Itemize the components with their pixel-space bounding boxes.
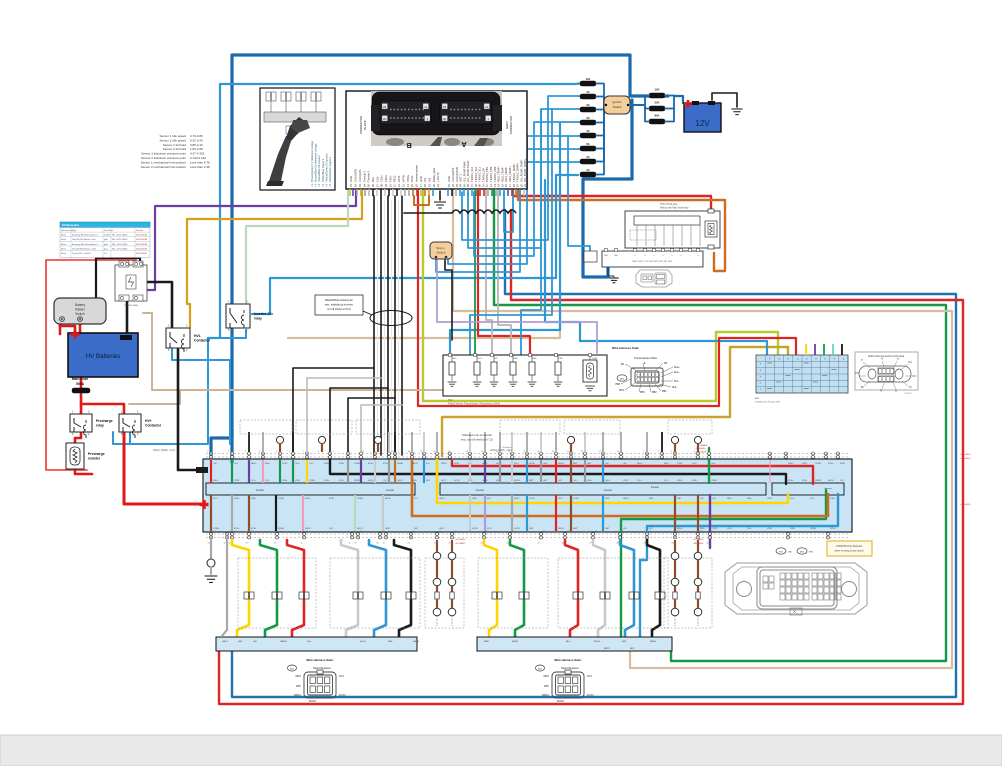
svg-text:CLK: CLK xyxy=(426,463,431,465)
svg-text:03 - CAN (E)TL: 03 - CAN (E)TL xyxy=(358,169,362,187)
svg-text:23: 23 xyxy=(537,451,539,453)
svg-text:CLK: CLK xyxy=(414,498,419,500)
svg-text:21: 21 xyxy=(434,543,436,545)
svg-text:4: 4 xyxy=(259,451,260,453)
svg-text:Park/Neutral Position SW: Park/Neutral Position SW xyxy=(755,401,781,404)
svg-text:REG-: REG- xyxy=(747,498,752,500)
battery HV Batteries pack xyxy=(68,333,138,377)
svg-text:Inverter: Inverter xyxy=(651,486,659,489)
svg-text:GND1: GND1 xyxy=(397,480,403,482)
svg-text:CLK+: CLK+ xyxy=(251,480,257,482)
svg-text:CRNB: CRNB xyxy=(810,528,816,530)
svg-text:GND2 GND 2 1 W UGR GR2: GND2 GND 2 1 W UGR GR2 GRL GR1 GR2 xyxy=(632,261,673,263)
wire band approach stubs xyxy=(249,432,662,452)
svg-text:CLK+: CLK+ xyxy=(295,463,301,465)
svg-text:CLK: CLK xyxy=(840,480,845,482)
svg-text:5A: 5A xyxy=(586,103,589,107)
svg-text:R: R xyxy=(880,390,882,393)
svg-text:Sensor 2 mechanical limit posi: Sensor 2 mechanical limit position xyxy=(141,165,187,169)
wire stop switch black drop xyxy=(445,259,452,340)
svg-text:+B (LAKE): +B (LAKE) xyxy=(960,457,971,460)
svg-text:11 - RE Q: 11 - RE Q xyxy=(393,176,397,187)
svg-text:SL2-: SL2- xyxy=(672,386,677,389)
wire contactor coil light-blue link xyxy=(129,432,131,444)
wire black fan to band pin B4 xyxy=(348,398,395,458)
svg-text:REG+: REG+ xyxy=(637,463,643,465)
svg-text:DRNB: DRNB xyxy=(354,480,360,482)
svg-text:Hybrid Vehicle Transmission (T: Hybrid Vehicle Transmission (Transmissio… xyxy=(448,403,500,406)
label MG2 RHD oval xyxy=(797,548,814,554)
svg-text:Shielded only at inverter: Shielded only at inverter xyxy=(462,433,492,437)
svg-text:Less than 2.38: Less than 2.38 xyxy=(190,165,210,169)
wire HV black contactor to band xyxy=(178,349,204,470)
svg-text:MTH+: MTH+ xyxy=(830,528,836,530)
svg-text:G7: G7 xyxy=(360,531,362,533)
svg-text:CLK: CLK xyxy=(329,528,334,530)
svg-text:Ignition: Ignition xyxy=(612,100,622,104)
svg-text:6: 6 xyxy=(289,451,290,453)
svg-text:Metra: Metra xyxy=(61,238,67,241)
svg-text:23: 23 xyxy=(481,543,483,545)
svg-text:MRF: MRF xyxy=(296,685,302,688)
svg-text:HV+: HV+ xyxy=(145,419,152,423)
wire SL blue to transmission xyxy=(450,123,560,355)
svg-text:14: 14 xyxy=(274,543,276,545)
svg-text:• 5 - Yellow/Green 2V ground: • 5 - Yellow/Green 2V ground xyxy=(324,153,328,187)
svg-text:MTH+: MTH+ xyxy=(324,480,330,482)
svg-text:N: N xyxy=(881,358,883,361)
svg-text:NC3: NC3 xyxy=(339,675,344,678)
svg-text:Sensor 1 mechanical limit posi: Sensor 1 mechanical limit position xyxy=(141,160,187,164)
svg-text:24: 24 xyxy=(552,451,554,453)
svg-text:08 - TRANS_SL2: 08 - TRANS_SL2 xyxy=(474,166,478,187)
wire ignition feed (dark blue) via fuse column xyxy=(583,100,632,277)
svg-text:MMH: MMH xyxy=(484,641,489,643)
svg-text:CONNECTOR: CONNECTOR xyxy=(509,116,513,134)
svg-text:G1: G1 xyxy=(649,531,651,533)
svg-text:6: 6 xyxy=(681,255,682,257)
wire black fan to band pin B1 xyxy=(293,368,374,458)
svg-text:NC3: NC3 xyxy=(587,675,592,678)
svg-text:GINV: GINV xyxy=(385,528,391,530)
svg-text:MRFG: MRFG xyxy=(294,694,301,697)
svg-text:13: 13 xyxy=(391,451,393,453)
svg-text:07 - CLK-: 07 - CLK- xyxy=(375,176,379,187)
svg-text:+B (LAKE): +B (LAKE) xyxy=(455,542,466,545)
svg-text:20: 20 xyxy=(443,117,447,121)
svg-text:No of Pins: No of Pins xyxy=(104,230,113,232)
wire inverter loop (red) long xyxy=(219,210,963,704)
svg-text:GND1: GND1 xyxy=(441,463,447,465)
svg-text:2: 2 xyxy=(658,451,659,453)
svg-text:MMFG: MMFG xyxy=(650,641,657,643)
svg-text:4.27-4.325: 4.27-4.325 xyxy=(190,152,205,156)
svg-text:B: B xyxy=(406,141,412,150)
svg-text:15: 15 xyxy=(420,451,422,453)
svg-text:27: 27 xyxy=(599,451,601,453)
svg-text:Inverter: Inverter xyxy=(256,489,264,492)
svg-text:Metra: Metra xyxy=(61,247,67,250)
contactor HV- xyxy=(166,325,211,353)
svg-text:16: 16 xyxy=(349,543,351,545)
wire HV red main to inverter band xyxy=(124,431,204,504)
background footer strip xyxy=(0,735,1002,766)
wire HV interlock tan xyxy=(152,313,448,390)
svg-text:Techno-SIL, 1-0603T: Techno-SIL, 1-0603T xyxy=(72,253,91,255)
table wiring parts list xyxy=(60,222,150,258)
svg-text:G4: G4 xyxy=(279,531,281,533)
connector band bottom pins xyxy=(210,533,830,540)
svg-text:HTM+: HTM+ xyxy=(282,480,288,482)
svg-text:Wire Harness Side:: Wire Harness Side: xyxy=(306,658,333,662)
svg-text:GHTC: GHTC xyxy=(441,480,447,482)
svg-text:CRNB: CRNB xyxy=(309,480,315,482)
svg-text:Economy SE, Metra-Braune 7: Economy SE, Metra-Braune 7 xyxy=(72,243,99,246)
shield outlines MG2 (dashed) xyxy=(478,558,712,628)
svg-text:G0: G0 xyxy=(213,531,215,533)
svg-text:Transmission Wire: Transmission Wire xyxy=(634,356,657,360)
svg-text:HV Batteries: HV Batteries xyxy=(86,353,121,360)
ground HV2 plug xyxy=(608,267,619,283)
svg-text:Sensor 1 idle speed: Sensor 1 idle speed xyxy=(159,134,186,138)
svg-text:G0: G0 xyxy=(388,531,390,533)
svg-text:relay: relay xyxy=(96,424,104,428)
svg-text:G8: G8 xyxy=(595,531,597,533)
wire black fan to band pin B3 xyxy=(330,388,388,458)
svg-text:Sensor 1 kickdown pressure poi: Sensor 1 kickdown pressure point xyxy=(141,152,186,156)
wire twisted bundle scallop xyxy=(404,210,516,213)
svg-text:17: 17 xyxy=(355,543,357,545)
block shift switch pin grid xyxy=(756,355,848,393)
svg-text:3.85-4.10: 3.85-4.10 xyxy=(190,143,203,147)
svg-text:HTM+: HTM+ xyxy=(234,498,240,500)
svg-text:Main Fuse: Main Fuse xyxy=(72,377,89,381)
svg-text:CPNC: CPNC xyxy=(282,463,288,465)
wire speed sensor gray 2 xyxy=(498,191,511,355)
svg-text:11: 11 xyxy=(362,451,364,453)
svg-text:GINV: GINV xyxy=(472,498,478,500)
svg-text:PV: PV xyxy=(855,372,859,375)
svg-text:80A: 80A xyxy=(655,114,660,118)
svg-text:REG-: REG- xyxy=(265,463,270,465)
svg-text:GCNC: GCNC xyxy=(472,528,478,530)
wire contactor HV- coil light-blue xyxy=(172,349,230,444)
svg-text:CRNB: CRNB xyxy=(354,463,360,465)
relay precharge xyxy=(70,411,113,439)
svg-text:MTH-: MTH- xyxy=(339,480,344,482)
svg-text:Motor Resolver: Motor Resolver xyxy=(561,666,579,670)
svg-text:• 4 - White/Blue Signal 1: • 4 - White/Blue Signal 1 xyxy=(321,158,325,187)
svg-text:MMT: MMT xyxy=(573,528,578,530)
svg-text:REG+: REG+ xyxy=(587,480,593,482)
svg-text:HTM+: HTM+ xyxy=(830,498,836,500)
svg-text:11 - TRANS_FB1: 11 - TRANS_FB1 xyxy=(485,167,489,187)
svg-text:SL1-: SL1- xyxy=(674,380,679,383)
connector MG1 motor resolver xyxy=(288,658,346,703)
svg-text:0.5GB: 0.5GB xyxy=(104,235,110,237)
svg-text:SP: SP xyxy=(664,362,668,365)
svg-text:20 - Brake_Input: 20 - Brake_Input xyxy=(432,168,436,187)
svg-text:CRNB: CRNB xyxy=(213,528,219,530)
svg-text:G6: G6 xyxy=(354,531,356,533)
wire relay output light-blue run xyxy=(252,175,578,314)
svg-text:HTM+: HTM+ xyxy=(788,463,794,465)
svg-text:Motor Resolver: Motor Resolver xyxy=(313,666,331,670)
svg-text:CLK-: CLK- xyxy=(810,498,815,500)
svg-text:06 - OIL_PUMP Power: 06 - OIL_PUMP Power xyxy=(466,161,470,187)
pin labels inverter band (texture) xyxy=(213,463,845,530)
svg-text:12 - TRANS_FB2: 12 - TRANS_FB2 xyxy=(489,166,493,187)
svg-text:19: 19 xyxy=(383,543,385,545)
svg-text:GMT: GMT xyxy=(543,480,548,482)
svg-text:MEX: MEX xyxy=(620,378,625,380)
svg-text:DRNB: DRNB xyxy=(815,480,821,482)
svg-text:D: D xyxy=(897,358,899,361)
svg-text:G3: G3 xyxy=(700,531,702,533)
wire shift mustard run xyxy=(442,347,788,456)
svg-text:16 - MG1_TEMP-: 16 - MG1_TEMP- xyxy=(504,167,508,187)
svg-text:GMTG: GMTG xyxy=(222,641,228,643)
svg-text:CLK: CLK xyxy=(383,480,388,482)
svg-text:NC3O: NC3O xyxy=(339,694,346,697)
svg-text:20A: 20A xyxy=(655,101,660,105)
svg-text:03 - CAN (E)TOH: 03 - CAN (E)TOH xyxy=(455,167,459,187)
svg-text:14 - MG2_TEMP+: 14 - MG2_TEMP+ xyxy=(497,166,501,187)
svg-text:GINV: GINV xyxy=(454,463,460,465)
svg-text:Inverter: Inverter xyxy=(386,489,394,492)
label MG1 LHD oval xyxy=(776,548,793,554)
svg-text:3: 3 xyxy=(671,451,672,453)
svg-text:27: 27 xyxy=(590,543,592,545)
wire speed sensor gray 1 xyxy=(486,191,492,355)
svg-text:HTM-: HTM- xyxy=(790,528,795,530)
block MG2 harness bar xyxy=(477,637,672,651)
svg-text:0.70-0.80: 0.70-0.80 xyxy=(190,134,203,138)
svg-text:BLACK: BLACK xyxy=(363,120,367,129)
svg-text:CLK+: CLK+ xyxy=(790,498,796,500)
switch battery master xyxy=(54,298,106,324)
svg-text:+B (LAKE): +B (LAKE) xyxy=(455,538,466,541)
svg-text:* 1: Shielded: * 1: Shielded xyxy=(499,447,512,449)
svg-text:16 - Inverter power: 16 - Inverter power xyxy=(414,165,418,187)
svg-text:Switch Side (Connector Front V: Switch Side (Connector Front View) xyxy=(868,355,905,358)
wire MG loop green band section xyxy=(621,490,826,648)
fuse block right column (10A 20A 80A) xyxy=(630,88,665,125)
svg-text:Wire Harness Side:: Wire Harness Side: xyxy=(612,346,639,350)
svg-text:SL2+: SL2+ xyxy=(674,366,680,369)
svg-text:2: 2 xyxy=(228,451,229,453)
svg-text:G5: G5 xyxy=(306,531,308,533)
wire HV red battery positive xyxy=(60,318,75,334)
svg-text:0001234569: 0001234569 xyxy=(136,248,148,250)
wire band bottom dashed links xyxy=(206,534,850,538)
relay inverter 12v xyxy=(226,301,273,333)
svg-text:A06F98Y: A06F98Y xyxy=(905,392,913,395)
svg-text:06 - BAL: 06 - BAL xyxy=(371,176,375,187)
svg-text:1.83-2.08: 1.83-2.08 xyxy=(190,147,203,151)
svg-text:G8: G8 xyxy=(382,531,384,533)
wire black fan to band pin B2 xyxy=(307,378,381,458)
svg-text:12V: 12V xyxy=(695,119,710,128)
svg-text:HVL: HVL xyxy=(194,334,201,338)
svg-text:G3: G3 xyxy=(454,531,456,533)
pin numbers band connectors (texture) xyxy=(207,451,714,545)
svg-text:CLK-: CLK- xyxy=(213,498,218,500)
wire band top dashed links xyxy=(206,454,850,458)
svg-text:10 - FDO-: 10 - FDO- xyxy=(388,175,392,187)
wire MG loop (green) long xyxy=(494,191,946,661)
svg-text:8: 8 xyxy=(698,255,699,257)
svg-text:9: 9 xyxy=(333,451,334,453)
svg-text:DuraCRi SE Stecker, Dual: DuraCRi SE Stecker, Dual xyxy=(72,238,96,241)
svg-text:SA Metra-plus: SA Metra-plus xyxy=(62,223,80,227)
svg-text:LHD/RHD Only Relevant: LHD/RHD Only Relevant xyxy=(836,545,863,548)
svg-text:CLK+: CLK+ xyxy=(637,480,643,482)
node HV+ junction (red cross) xyxy=(200,500,209,509)
text band model labels xyxy=(153,444,708,455)
connector HV2 front view xyxy=(636,270,672,287)
svg-text:• 6 - White/Green Signal 2: • 6 - White/Green Signal 2 xyxy=(328,156,332,187)
svg-text:28: 28 xyxy=(617,451,619,453)
text sensor calibration table xyxy=(141,134,210,169)
svg-text:Economy SE, Metra-Braune 7: Economy SE, Metra-Braune 7 xyxy=(72,234,99,237)
wire battery ground link xyxy=(712,93,737,107)
svg-text:GMF: GMF xyxy=(388,641,393,643)
svg-text:04 - OUT 1: 04 - OUT 1 xyxy=(459,174,463,187)
svg-text:CPNC: CPNC xyxy=(767,498,773,500)
svg-text:Sensor 2 idle speed: Sensor 2 idle speed xyxy=(159,138,186,142)
svg-text:07 - TRANS_SL3: 07 - TRANS_SL3 xyxy=(470,166,474,187)
svg-text:0001234568: 0001234568 xyxy=(136,239,148,241)
svg-text:GMT: GMT xyxy=(677,498,682,500)
svg-text:5A: 5A xyxy=(586,168,589,172)
svg-text:20: 20 xyxy=(408,543,410,545)
svg-text:G0: G0 xyxy=(622,531,624,533)
svg-text:G3: G3 xyxy=(251,531,253,533)
svg-text:15: 15 xyxy=(301,543,303,545)
connector U1 vehicle-control ECU (photo box) xyxy=(346,91,527,189)
svg-text:10A: 10A xyxy=(655,88,660,92)
ground ECU shield xyxy=(434,191,446,208)
wire 12V branch to band pin xyxy=(211,430,232,458)
block hybrid transmission solenoids xyxy=(443,354,607,406)
svg-text:10: 10 xyxy=(348,451,350,453)
wire band upper pin drops xyxy=(211,460,770,483)
svg-text:HTM-: HTM- xyxy=(295,480,300,482)
svg-text:18: 18 xyxy=(466,451,468,453)
wire in-band black bus xyxy=(330,460,786,484)
wire teal drop 2 xyxy=(521,110,541,356)
svg-text:02 - CAN (E)TOL: 02 - CAN (E)TOL xyxy=(451,167,455,187)
wire fuse distribution stairs (light blue) xyxy=(436,96,580,272)
svg-text:GLGG: GLGG xyxy=(360,641,366,643)
pin labels ECU connectors A and B xyxy=(349,158,527,187)
svg-text:MTH+: MTH+ xyxy=(788,480,794,482)
svg-text:5A: 5A xyxy=(586,155,589,159)
svg-text:GCSD: GCSD xyxy=(573,498,579,500)
svg-text:ASSU, A0226, +VC1: ASSU, A0226, +VC1 xyxy=(490,449,513,452)
svg-text:G7: G7 xyxy=(567,531,569,533)
svg-text:G1: G1 xyxy=(413,531,415,533)
svg-text:Battery: Battery xyxy=(75,303,86,307)
svg-text:MRFG: MRFG xyxy=(542,694,549,697)
svg-text:MMT: MMT xyxy=(529,480,534,482)
svg-text:02 - CAN (E)TH: 02 - CAN (E)TH xyxy=(354,169,358,187)
callout LHD RHD note xyxy=(827,541,872,556)
wire group MG2 resolver wires xyxy=(484,540,665,636)
svg-text:G4: G4 xyxy=(712,531,714,533)
contactor HV+ xyxy=(119,411,162,439)
svg-text:GMFG: GMFG xyxy=(413,641,419,643)
svg-text:10 - TRANS_SP: 10 - TRANS_SP xyxy=(481,168,485,187)
svg-text:05 - Throttle 2: 05 - Throttle 2 xyxy=(367,170,371,187)
svg-text:CPNC: CPNC xyxy=(623,480,629,482)
svg-text:MTH-: MTH- xyxy=(802,480,807,482)
svg-text:MMT: MMT xyxy=(649,498,654,500)
svg-text:MSNG: MSNG xyxy=(512,641,518,643)
svg-text:3: 3 xyxy=(654,255,655,257)
svg-text:HTM+: HTM+ xyxy=(324,463,330,465)
svg-text:Metra: Metra xyxy=(61,243,67,246)
svg-text:HEOK: HEOK xyxy=(305,528,311,530)
wire PB red to transmission xyxy=(478,191,530,355)
svg-text:HEOK: HEOK xyxy=(368,480,374,482)
wire contactor gold control xyxy=(187,191,362,327)
svg-text:20 - OIL_PUMP_TEMP-: 20 - OIL_PUMP_TEMP- xyxy=(519,159,523,187)
svg-text:Switch: Switch xyxy=(437,251,446,255)
wire master switch black xyxy=(59,322,62,334)
svg-text:REG-: REG- xyxy=(664,463,669,465)
svg-text:Switch: Switch xyxy=(75,312,85,316)
svg-text:11: 11 xyxy=(424,105,427,109)
svg-text:IGN: IGN xyxy=(414,528,418,530)
wire in-band yellow bus xyxy=(437,455,788,503)
svg-text:HEOK: HEOK xyxy=(828,480,834,482)
callout twisted pair note xyxy=(315,295,412,326)
wire band lower drops xyxy=(211,495,698,531)
wire fuse to battery xyxy=(665,96,683,122)
svg-text:resister: resister xyxy=(88,457,101,461)
svg-text:01 - GND: 01 - GND xyxy=(447,176,451,187)
svg-text:HD - 0071-12633: HD - 0071-12633 xyxy=(112,248,128,250)
svg-text:DRNB: DRNB xyxy=(397,463,403,465)
svg-text:MTH+: MTH+ xyxy=(234,528,240,530)
svg-text:26: 26 xyxy=(562,543,564,545)
svg-text:19: 19 xyxy=(481,451,483,453)
svg-text:+B (LAKE): +B (LAKE) xyxy=(960,453,971,456)
svg-text:• 3 - Yellow/Blue Idl Ground: • 3 - Yellow/Blue Idl Ground xyxy=(317,155,321,187)
svg-text:GND1: GND1 xyxy=(439,498,445,500)
svg-text:MDH: MDH xyxy=(296,675,302,678)
switch stop lamp xyxy=(430,242,452,259)
wire teal drop 3 xyxy=(568,136,590,251)
wire HV red fuse to precharge xyxy=(80,394,83,414)
svg-text:Sensor 2 full load: Sensor 2 full load xyxy=(163,147,187,151)
svg-text:24: 24 xyxy=(507,543,509,545)
svg-text:0.31-0.43: 0.31-0.43 xyxy=(190,138,203,142)
svg-text:15 - MG2_TEMP-: 15 - MG2_TEMP- xyxy=(500,167,504,187)
connector small aux box xyxy=(584,251,597,262)
svg-text:28: 28 xyxy=(617,543,619,545)
svg-text:GLG: GLG xyxy=(307,641,312,643)
connector HV2 harness row xyxy=(602,249,703,268)
wire 12V main feed (dark blue) top run xyxy=(232,55,668,462)
wire group MG1 shield browns xyxy=(433,540,456,626)
svg-text:HTM-: HTM- xyxy=(692,480,697,482)
svg-text:MTH+: MTH+ xyxy=(828,463,834,465)
svg-text:26: 26 xyxy=(443,105,447,109)
svg-text:4: 4 xyxy=(663,255,664,257)
